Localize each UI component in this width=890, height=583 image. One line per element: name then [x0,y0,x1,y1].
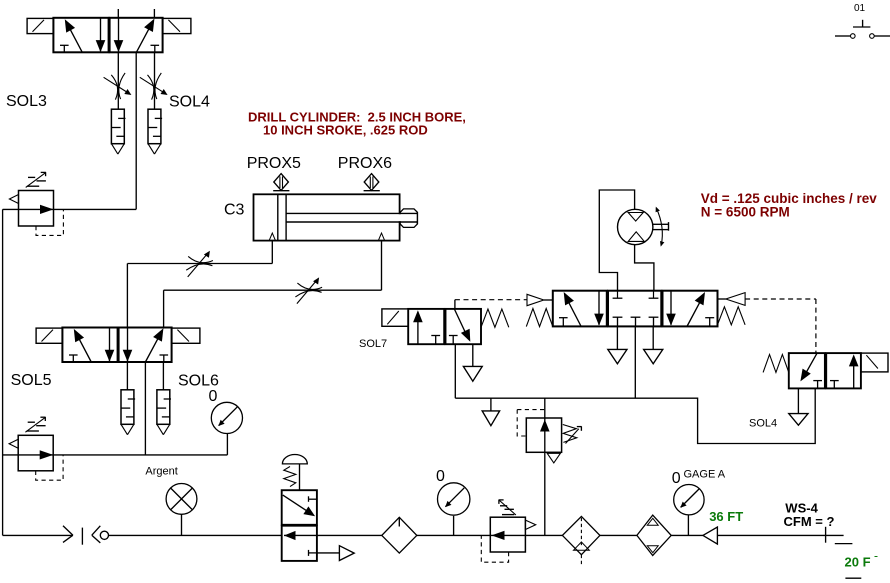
wire V1 exhaust A to flow control FC1 [117,52,119,109]
exhaust drop on runner [482,398,500,426]
spring right of valve V3 [718,307,746,325]
cylinder C3 body [254,194,400,240]
water separator WS diamond [562,516,600,566]
svg-text:10 INCH SROKE, .625 ROD: 10 INCH SROKE, .625 ROD [263,122,428,137]
spring left of valve V3 [526,309,553,327]
flow control FC1 [104,73,132,100]
svg-text:0: 0 [436,468,445,485]
wire filter to regulator R3 [417,534,491,536]
spring right of SOL7 [481,309,509,327]
wire V1 exhaust B to flow control FC2 [154,52,156,109]
limit switch contact 01 [835,3,890,38]
wire separator to lubricator [600,534,637,536]
wire left supply bus vertical [2,209,4,535]
svg-text:SOL3: SOL3 [6,93,47,110]
wire cylinder cap port drop [271,241,273,264]
svg-text:SOL4: SOL4 [169,94,210,111]
exhaust port triangle [339,546,354,561]
svg-text:SOL5: SOL5 [11,372,52,389]
wire supply bus into regulator R1 [3,208,137,210]
svg-text:GAGE A: GAGE A [684,469,726,481]
svg-text:PROX5: PROX5 [247,155,301,172]
wire gauge GAGE A stem [687,515,689,536]
svg-text:0: 0 [672,470,681,487]
page connector tick WS-4 [825,527,827,543]
flow control FC3 [186,251,213,277]
wire lubricator to check valve [671,534,703,536]
pilot relief valve RV1 [517,410,581,463]
svg-text:N = 6500 RPM: N = 6500 RPM [701,205,790,220]
lubricator/filter diamond F1 [382,517,417,553]
wire V2 port B to cylinder rod end [164,289,382,291]
wire V2 port A up [126,264,128,328]
wire V2 P port down to regulator R2 line [144,362,146,455]
valve SOL7 3/2 solenoid pilot valve [382,309,481,344]
wire cylinder rod port drop [381,241,383,291]
svg-text:SOL7: SOL7 [359,338,387,350]
quick disconnect coupling [63,526,109,545]
connector stub line a [835,543,853,545]
valve V1 SOL3/SOL4 5/2 double-solenoid [27,18,191,53]
pilot triangle right of valve V3 [718,293,746,306]
cylinder port marker cap end [269,233,275,240]
pressure regulator R2 [9,417,63,480]
svg-text:0: 0 [209,388,218,405]
wire SOL7 supply port down to pilot runner [454,344,456,398]
wire supply bus into regulator R2 [3,454,228,456]
wire V2 exhaust A to muffler M3 [126,362,128,390]
wire V1 P port to regulator R1 output [135,52,137,209]
svg-text:PROX6: PROX6 [338,155,392,172]
wire main supply line to shutoff valve [109,534,282,536]
indicator Argent [166,484,197,536]
muffler M1 [111,109,125,154]
svg-text:CFM = ?: CFM = ? [784,514,835,529]
air motor AM1 [618,207,669,247]
pressure gauge G3 [438,483,470,515]
svg-text:01: 01 [854,3,866,14]
wire main supply line left [3,534,73,536]
wire right pilot dashed from V3 to SOL4 valve [745,299,816,353]
proximity sensor PROX6 [364,174,380,191]
wire motor loop B side [635,245,654,291]
wire regulator R3 to separator [525,534,562,536]
wire V3 center port down to pilot runner [634,326,636,398]
pressure regulator R3 [481,500,535,563]
pressure regulator R1 [9,172,63,235]
wire supply to filter [317,534,382,536]
wire V2 port A to cylinder cap end [127,263,272,265]
cylinder port marker rod end [378,233,384,240]
check valve CV1 [703,527,718,544]
connector stub line b [845,577,861,579]
wire pilot supply runner [455,388,815,443]
proximity sensor PROX5 [273,174,289,191]
wire V2 exhaust B to muffler M4 [162,362,164,390]
svg-text:Argent: Argent [145,465,177,477]
wire V1 port B stub [153,9,155,18]
wire V1 port A stub [117,9,119,18]
cylinder C3 rod and knob [286,209,417,228]
pilot triangle left of valve V3 [527,294,553,305]
wire V2 port B up [163,290,165,327]
svg-text:SOL4: SOL4 [749,418,777,430]
svg-text:C3: C3 [224,202,245,219]
muffler M3 [121,390,135,435]
lubricator diamond LB [637,515,671,555]
wire V3 exhaust left triangle [608,326,627,363]
pressure gauge GAGE A [674,485,704,515]
svg-text:20 F: 20 F [845,555,871,570]
spring left of SOL4 valve [763,355,789,373]
wire to gauge G2 [226,433,228,455]
svg-text:SOL6: SOL6 [178,373,219,390]
flow control FC4 [295,277,322,303]
wire V3 exhaust right triangle [644,326,663,363]
wire supply outlet right [717,534,843,536]
wire gauge G3 stem [453,516,455,535]
wire SOL7 exhaust [463,344,482,381]
valve SOL4 3/2 solenoid pilot valve mirrored [789,353,888,388]
muffler M2 [148,109,162,154]
wire relief valve drop to supply line [544,398,546,535]
muffler M4 [157,390,171,435]
wire shutoff exhaust [317,552,340,554]
valve V3 5/3 pilot operated center closed [553,291,718,327]
shutoff valve palm button 3/2 [282,454,317,560]
wire motor loop A side [599,190,634,291]
wire SOL4 valve exhaust [789,388,808,425]
flow control FC2 [140,73,168,100]
wire SOL7 output to left pilot of V3 [455,300,527,309]
svg-text:36 FT: 36 FT [709,509,743,524]
pressure gauge G2 [211,402,242,433]
valve V2 SOL5/SOL6 5/2 double-solenoid [36,328,200,363]
